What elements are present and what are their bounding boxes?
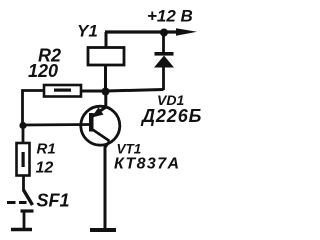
wire R1 bottom lead <box>22 176 25 192</box>
svg-text:SF1: SF1 <box>37 191 70 211</box>
svg-text:КТ837А: КТ837А <box>114 156 180 173</box>
wire diode to collector node <box>106 90 164 92</box>
svg-text:R1: R1 <box>37 141 56 158</box>
wire base lead <box>23 123 90 126</box>
ground (right) <box>90 228 116 232</box>
node base junction <box>19 122 26 129</box>
wire R2 to collector node <box>80 90 106 93</box>
svg-text:120: 120 <box>28 61 58 81</box>
wire emitter to ground <box>104 146 107 230</box>
resistor R1 <box>17 143 30 176</box>
wire relay top lead <box>105 32 108 47</box>
ground (left) <box>11 228 32 232</box>
wire rail to R1 <box>22 126 25 145</box>
wire collector node to transistor <box>104 92 107 109</box>
wire diode top lead <box>162 33 165 54</box>
wire R2 left lead <box>23 91 45 126</box>
transistor VT1 <box>81 106 120 147</box>
resistor R2 <box>44 85 81 97</box>
diode VD1 <box>154 52 174 68</box>
svg-text:Y1: Y1 <box>77 22 98 41</box>
relay Y1 <box>88 48 124 66</box>
switch SF1 <box>7 190 34 211</box>
wire relay bottom lead <box>104 65 107 92</box>
svg-text:12: 12 <box>36 160 54 177</box>
svg-text:+12 В: +12 В <box>147 7 193 26</box>
wire +12V supply line with arrow <box>105 28 197 36</box>
node +12V/diode junction <box>160 29 168 37</box>
wire diode bottom lead <box>162 66 165 90</box>
wire switch to ground <box>23 211 26 229</box>
svg-text:VT1: VT1 <box>117 142 142 157</box>
svg-text:Д226Б: Д226Б <box>140 106 202 126</box>
node collector junction <box>102 88 110 96</box>
